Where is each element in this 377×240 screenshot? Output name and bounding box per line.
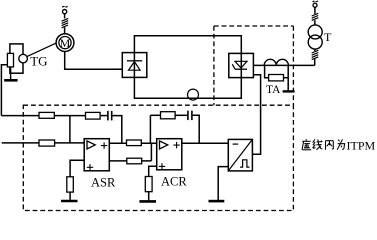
- ASR noninverting input wire: [70, 160, 84, 177]
- inner dashed box left edge: [213, 26, 215, 105]
- ACR feedback capacitor: [188, 111, 192, 121]
- thyristor wire through box: [240, 53, 242, 77]
- svg-text:ITPM: ITPM: [347, 138, 376, 152]
- ACR feedback resistor: [161, 112, 176, 119]
- shaft motor to TG: [27, 43, 57, 57]
- potentiometer tap resistor: [7, 53, 13, 67]
- wire zigzag to terminal: [314, 7, 316, 14]
- TA secondary right lead: [287, 65, 289, 90]
- op-amp ASR box: [84, 139, 109, 171]
- resistor R input 1: [39, 112, 54, 118]
- wire diode box left to motor line: [114, 68, 122, 70]
- ASR feedback resistor: [86, 112, 101, 119]
- wire motor bottom: [65, 52, 123, 70]
- diode wire through box: [133, 53, 135, 78]
- wire T lower circle to zigzag: [314, 49, 316, 51]
- GT ground wire: [218, 167, 228, 201]
- ground stem under potentiometer: [10, 67, 12, 80]
- ground bar GT: [209, 200, 225, 203]
- ASR triangle: [87, 141, 95, 149]
- ACR balance resistor: [145, 177, 152, 192]
- ASR plus bottom: [87, 164, 93, 170]
- resistor R input 2: [39, 140, 55, 146]
- svg-text:TA: TA: [266, 84, 281, 96]
- junction vertical summing node ASR: [69, 116, 71, 143]
- current transformer TA humps: [264, 59, 288, 65]
- main armature line thyristor to transformer: [253, 64, 314, 66]
- wire pot tap to left rail: [1, 65, 7, 116]
- svg-text:TG: TG: [30, 53, 47, 68]
- wire C to output: [112, 116, 121, 144]
- note text: hanzi NEI: [326, 141, 334, 150]
- TA burden resistor: [269, 75, 284, 81]
- motor M inner circle: [59, 37, 71, 49]
- ACR feedback tap vertical: [149, 115, 151, 143]
- ACR plus bottom: [159, 163, 165, 169]
- svg-text:M: M: [60, 36, 71, 50]
- motor M outer circle: [56, 34, 74, 52]
- rectifier diode box: [122, 53, 147, 78]
- ACR noninverting input wire: [149, 166, 157, 176]
- diode triangle up: [129, 62, 141, 71]
- ASR balance resistor: [67, 177, 74, 192]
- op-amp ACR box: [157, 139, 182, 170]
- svg-text:ACR: ACR: [161, 174, 187, 188]
- bottom link wire diode to thyristor: [134, 77, 241, 98]
- choke winding (zigzag) left: [62, 18, 69, 27]
- ground bar ASR: [61, 200, 78, 203]
- AC terminal right circle: [313, 3, 317, 7]
- input line 2 (reference): [2, 142, 85, 144]
- trigger unit GT box: [228, 139, 252, 171]
- wire C to ACR output: [193, 115, 200, 143]
- resistor lower path: [127, 158, 142, 164]
- ACR triangle: [160, 141, 168, 149]
- GT output wire to gate: [252, 75, 260, 155]
- outer dashed box ITPM: [23, 105, 293, 210]
- resistor ASR to ACR: [127, 140, 142, 146]
- TA ground bar: [283, 90, 295, 92]
- svg-text:ASR: ASR: [91, 175, 116, 189]
- TA secondary left lead: [265, 65, 269, 77]
- note text: hanzi WEI: [337, 139, 345, 150]
- thyristor cathode bar: [235, 68, 247, 70]
- ACR plus top: [173, 142, 179, 148]
- transformer T circle upper: [308, 25, 322, 39]
- inner dashed box right edge: [292, 26, 294, 105]
- GT pulse icon: [240, 160, 249, 167]
- wire zigzag to corner: [314, 59, 316, 66]
- wire resistor to ground ASR: [69, 192, 71, 200]
- wire choke to motor: [64, 27, 66, 34]
- wire to ACR feedback R: [150, 114, 160, 116]
- top link wire diode to thyristor: [134, 36, 241, 54]
- AC terminal right tilde: [312, 0, 318, 2]
- junction vertical between rails: [150, 143, 152, 161]
- svg-text:T: T: [324, 30, 332, 44]
- transformer T circle lower: [308, 35, 322, 49]
- wire feedback R to C: [100, 115, 107, 117]
- AC source terminal left: tilde: [62, 6, 68, 8]
- thyristor gate stroke: [232, 64, 235, 69]
- transformer T upper zigzag: [312, 13, 319, 20]
- thyristor triangle down: [235, 61, 247, 68]
- crossing loop on bottom link: [188, 89, 199, 100]
- ASR feedback capacitor: [108, 111, 112, 121]
- ASR output line: [109, 142, 156, 144]
- note text: hanzi XIAN: [313, 139, 323, 149]
- ground bar potentiometer: [4, 79, 17, 82]
- wire T top circle to zigzag: [314, 20, 316, 25]
- TG circle: [19, 54, 28, 63]
- GT minus sign: [233, 143, 239, 145]
- inner dashed box top edge: [214, 25, 294, 27]
- diode cathode bar: [127, 60, 142, 62]
- note text: hanzi XU: [302, 139, 311, 150]
- wire terminal to choke: [64, 14, 66, 19]
- thyristor box: [229, 53, 254, 77]
- ASR lower output line: [109, 160, 151, 162]
- TA resistor right link: [284, 77, 289, 79]
- ACR output to trigger: [182, 142, 229, 144]
- AC source terminal left: circle: [63, 10, 67, 14]
- wire resistor to ground ACR: [148, 192, 150, 201]
- potentiometer box: [10, 44, 23, 73]
- transformer T lower zigzag: [312, 50, 319, 59]
- ASR plus top: [101, 142, 107, 148]
- GT diagonal: [228, 139, 252, 171]
- ground bar ACR: [139, 200, 156, 203]
- input line 1 (speed feedback): [1, 115, 85, 117]
- wire feedback R to C: [175, 114, 187, 116]
